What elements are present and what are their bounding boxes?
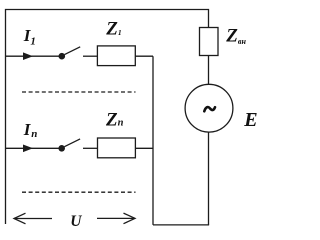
svg-text:U: U — [70, 213, 82, 230]
svg-text:E: E — [243, 109, 257, 131]
